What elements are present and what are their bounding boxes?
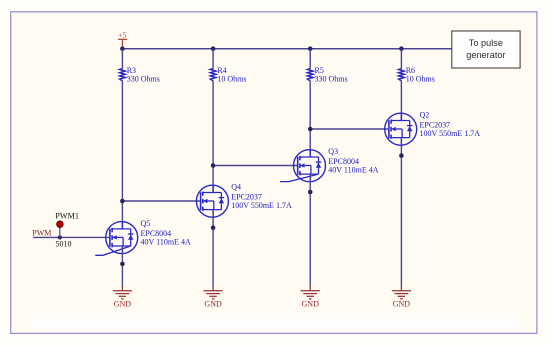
wire: Q5 source to GND xyxy=(121,246,123,287)
wire: R4 to Q4 drain xyxy=(212,81,214,193)
PWM1 test point xyxy=(55,212,79,238)
resistor R5 xyxy=(307,66,347,83)
svg-text:PWM1: PWM1 xyxy=(55,212,79,221)
svg-text:EPC8004: EPC8004 xyxy=(328,157,359,166)
svg-text:GND: GND xyxy=(393,300,411,309)
wire: +5 rail xyxy=(122,48,451,50)
+5 power symbol xyxy=(118,39,127,46)
svg-text:40V 110mE 4A: 40V 110mE 4A xyxy=(328,166,378,175)
wire: rail to R5 xyxy=(309,49,311,69)
svg-text:EPC8004: EPC8004 xyxy=(141,229,172,238)
svg-text:GND: GND xyxy=(204,300,222,309)
transistor Q3 (EPC8004 MOSFET) xyxy=(280,147,379,182)
wire: R3 to Q5 drain xyxy=(121,81,123,229)
resistor R4 xyxy=(210,66,246,83)
svg-text:EPC2037: EPC2037 xyxy=(231,192,262,201)
node: gate tap Q4 xyxy=(120,199,125,204)
node: PWM tap xyxy=(58,235,62,239)
svg-text:+5: +5 xyxy=(118,31,126,40)
svg-text:Q4: Q4 xyxy=(231,183,241,192)
wire: R6 to Q2 drain xyxy=(400,81,402,121)
wire: Q3 source to GND xyxy=(309,174,311,286)
svg-text:generator: generator xyxy=(466,50,505,60)
wire: Q2 source to GND xyxy=(400,138,402,287)
svg-text:10 Ohms: 10 Ohms xyxy=(217,75,246,84)
resistor R6 xyxy=(399,66,435,83)
svg-text:Q3: Q3 xyxy=(328,147,338,156)
ground under Q2 xyxy=(392,286,411,309)
node: below Q4 xyxy=(211,225,216,230)
wire: PWM input to Q5 gate xyxy=(33,236,109,238)
svg-text:Q5: Q5 xyxy=(141,219,151,228)
wire: Q4 gate to node on R3 branch xyxy=(122,200,199,202)
node: rail at R6 xyxy=(399,46,404,51)
svg-text:40V 110mE 4A: 40V 110mE 4A xyxy=(141,238,191,247)
ground under Q3 xyxy=(301,286,320,309)
svg-text:5010: 5010 xyxy=(56,239,72,248)
wire: Q2 gate to node on R5 branch xyxy=(310,128,388,130)
node: below Q3 xyxy=(308,190,313,195)
node: below Q2 xyxy=(399,153,404,158)
wire: Q3 gate to node on R4 branch xyxy=(213,165,297,167)
node: rail at R3 xyxy=(120,46,125,51)
resistor R3 xyxy=(120,66,160,83)
wire: rail to R6 xyxy=(400,49,402,69)
svg-text:330 Ohms: 330 Ohms xyxy=(315,75,348,84)
output box: To pulse generator xyxy=(452,31,520,68)
svg-text:EPC2037: EPC2037 xyxy=(420,120,451,129)
svg-text:100V 550mE 1.7A: 100V 550mE 1.7A xyxy=(420,129,481,138)
svg-text:330 Ohms: 330 Ohms xyxy=(127,75,160,84)
svg-text:GND: GND xyxy=(302,300,320,309)
svg-text:100V 550mE 1.7A: 100V 550mE 1.7A xyxy=(231,201,292,210)
wire: rail to R4 xyxy=(212,49,214,69)
svg-text:To pulse: To pulse xyxy=(469,38,503,48)
svg-text:10 Ohms: 10 Ohms xyxy=(406,75,435,84)
svg-text:PWM: PWM xyxy=(32,229,51,238)
transistor Q4 (EPC2037 MOSFET) xyxy=(196,183,292,218)
wire: Q4 source to GND xyxy=(212,210,214,287)
transistor Q5 (EPC8004 MOSFET) xyxy=(95,219,191,255)
node: rail at R5 xyxy=(308,46,313,51)
wire: rail to R3 xyxy=(121,49,123,69)
svg-text:Q2: Q2 xyxy=(420,111,430,120)
ground under Q4 xyxy=(204,286,223,309)
svg-text:GND: GND xyxy=(114,300,132,309)
node: gate tap Q3 xyxy=(211,163,216,168)
node: gate tap Q2 xyxy=(308,127,313,132)
transistor Q2 (EPC2037 MOSFET) xyxy=(385,111,481,146)
node: below Q5 xyxy=(120,262,125,267)
node: rail at R4 xyxy=(211,46,216,51)
ground under Q5 xyxy=(113,286,132,309)
wire: R5 to Q3 drain xyxy=(309,81,311,157)
